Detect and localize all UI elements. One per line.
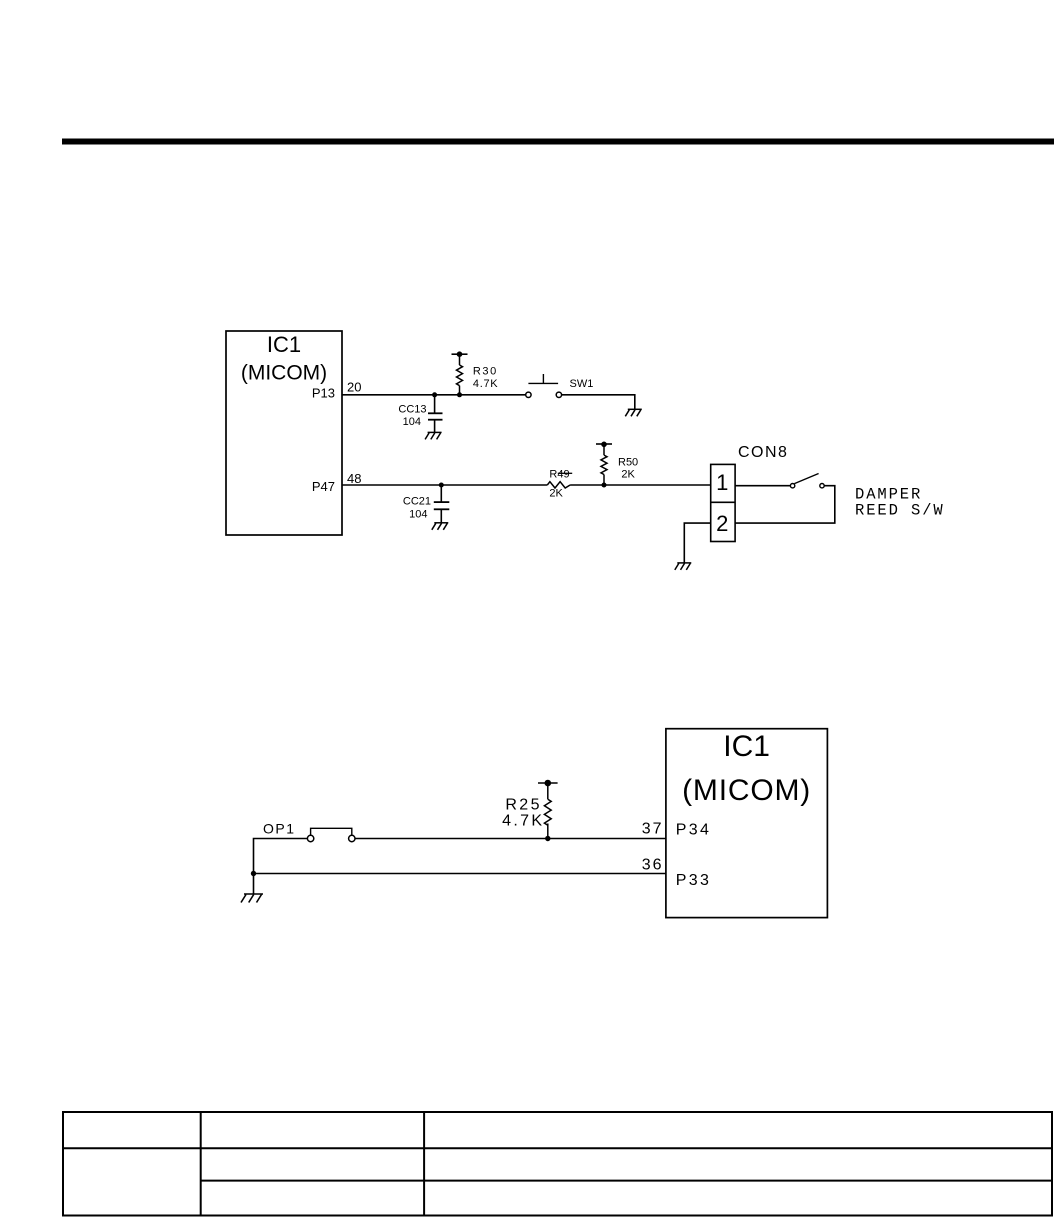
svg-text:2: 2 [716,511,728,536]
svg-text:48: 48 [347,471,361,486]
svg-text:CC13: CC13 [398,404,426,416]
power tap (R30 pull-up) [452,353,468,355]
switch OP1 bridge [311,828,352,835]
wire P47 net [342,484,547,486]
svg-text:IC1: IC1 [267,332,301,357]
switch OP1 [307,835,355,841]
resistor R25 [544,783,551,839]
svg-text:37: 37 [642,821,664,838]
strike line through R49 [558,472,572,474]
svg-text:(MICOM): (MICOM) [682,774,811,807]
svg-text:(MICOM): (MICOM) [241,362,327,385]
wire P34 net [355,838,666,840]
svg-text:R25: R25 [505,796,542,813]
svg-text:4.7K: 4.7K [473,378,498,390]
table column line 2 [423,1112,425,1216]
svg-text:CON8: CON8 [738,444,788,461]
svg-text:P33: P33 [676,872,712,889]
table outer border [63,1112,1052,1216]
node junction R50 [602,483,607,488]
node junction R30 [457,392,462,397]
table row line 1 [63,1147,1052,1149]
ground (CON8 pin2) [675,563,692,570]
capacitor CC21 [434,485,450,523]
connector CON8 [711,464,735,541]
reed switch contacts [790,484,824,488]
ground (CC21) [432,523,449,530]
svg-text:4.7K: 4.7K [502,812,544,829]
svg-text:R30: R30 [473,366,498,378]
svg-text:20: 20 [347,380,361,395]
wire SW1 to ground [562,395,635,410]
ground (CC13) [425,432,442,439]
svg-text:104: 104 [403,416,421,428]
power tap (R25 pull-up) [538,782,558,784]
wire reed switch return to pin2 [735,486,835,523]
node junction R25 [545,836,550,841]
svg-text:P47: P47 [312,479,335,494]
node junction CC21 [439,483,444,488]
svg-text:36: 36 [642,857,664,874]
svg-text:REED S/W: REED S/W [855,502,945,520]
svg-text:OP1: OP1 [263,821,296,837]
resistor R50 [601,444,607,485]
wire CON8 pin2 to ground [684,523,710,563]
switch SW1 [526,392,562,397]
node junction P33/ground [251,871,256,876]
ground (SW1) [625,409,642,416]
svg-text:R50: R50 [618,456,638,468]
node junction CC13 [432,392,437,397]
IC U1b box (IC1 MICOM) [666,729,828,918]
ground (OP1) [241,894,263,903]
header rule [62,139,1054,145]
svg-text:R49: R49 [549,468,569,480]
svg-text:2K: 2K [621,468,635,480]
svg-text:P13: P13 [312,386,335,401]
svg-text:2K: 2K [549,488,563,500]
table column line 1 [200,1112,202,1216]
wire P33 net [254,873,666,875]
IC U1 box (IC1 MICOM) [226,331,342,535]
capacitor CC13 [428,395,443,433]
wire OP1 left leg [254,839,308,895]
svg-text:DAMPER: DAMPER [855,485,922,503]
svg-text:IC1: IC1 [723,730,770,763]
svg-text:1: 1 [716,470,728,495]
table row line 2 (cols 2-3 only) [201,1180,1052,1182]
reed switch arm [794,474,818,484]
wire P13 net [342,394,526,396]
wire CON8 pin1 to reed switch [735,485,790,487]
power tap (R50 pull-up) [596,443,612,445]
svg-text:104: 104 [409,508,427,520]
svg-text:SW1: SW1 [570,378,594,390]
resistor R30 [457,354,463,395]
svg-text:CC21: CC21 [403,495,431,507]
svg-text:P34: P34 [676,822,712,839]
resistor R49 (inline horizontal) [547,482,570,488]
